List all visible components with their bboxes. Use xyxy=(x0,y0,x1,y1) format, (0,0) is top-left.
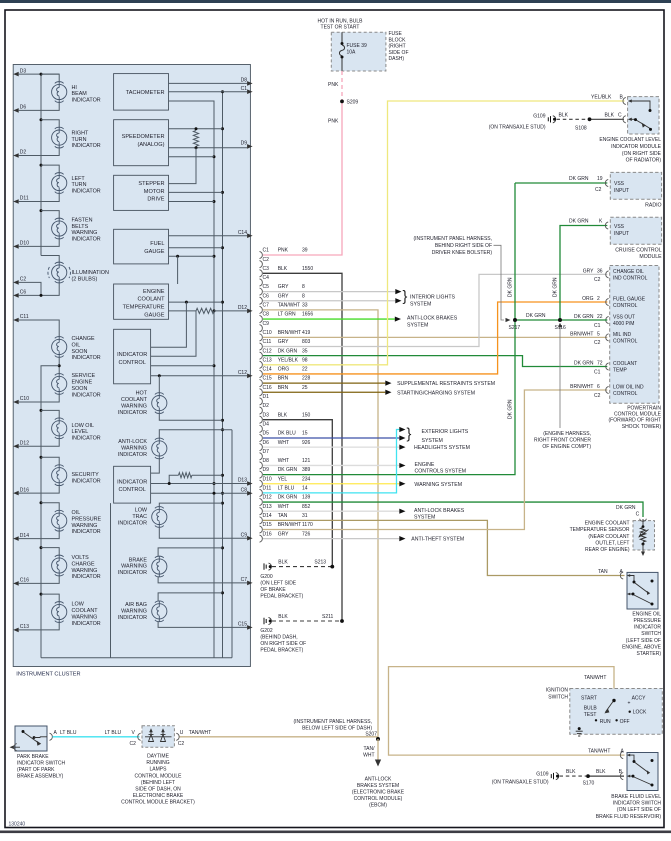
node warning system arrow xyxy=(399,481,405,486)
AIR BAG WARNING INDICATOR bulb xyxy=(152,604,167,619)
resistor speedometer (vertical) xyxy=(193,131,198,147)
svg-text:(BEHIND DASH,: (BEHIND DASH, xyxy=(260,634,297,640)
svg-text:RUN: RUN xyxy=(600,719,611,725)
svg-text:C10: C10 xyxy=(20,396,29,402)
svg-text:8: 8 xyxy=(302,293,305,299)
svg-text:BLK: BLK xyxy=(566,769,576,775)
svg-text:TAN: TAN xyxy=(278,513,288,519)
cluster pin C1 (right edge) xyxy=(247,89,253,94)
wire D3 BLK 150 to S213 xyxy=(263,420,332,567)
svg-text:COOLANT: COOLANT xyxy=(613,361,637,367)
svg-text:WARNING: WARNING xyxy=(72,614,98,620)
cluster pin D14 (left edge) xyxy=(13,536,19,541)
wire illumination bottom to C6/C2 xyxy=(19,283,60,295)
FUEL GAUGE box xyxy=(114,229,169,264)
svg-text:DRIVER KNEE BOLSTER): DRIVER KNEE BOLSTER) xyxy=(432,250,493,256)
cluster pin C10 (left edge) xyxy=(13,400,19,405)
svg-text:C15: C15 xyxy=(263,376,272,382)
svg-text:TAN/WHT: TAN/WHT xyxy=(588,748,610,754)
ILLUMINATION (2 BULBS) bulb xyxy=(52,265,67,280)
svg-text:WARNING: WARNING xyxy=(121,609,147,615)
svg-text:DK GRN: DK GRN xyxy=(553,277,559,297)
svg-text:OFF: OFF xyxy=(620,719,630,725)
svg-text:C8: C8 xyxy=(241,488,248,494)
svg-text:39: 39 xyxy=(302,248,308,254)
svg-text:(ENGINE HARNESS,: (ENGINE HARNESS, xyxy=(543,431,591,437)
wire indicator control 1 in 2 xyxy=(151,311,196,356)
fuse 39 10A xyxy=(341,32,343,42)
wire D9 DK GRN 389 to S217 rail xyxy=(263,183,515,475)
cluster pin D12 (left edge) xyxy=(13,444,19,449)
svg-text:C9: C9 xyxy=(241,532,248,538)
cluster pin C8 (right edge) xyxy=(247,491,253,496)
svg-text:GAUGE: GAUGE xyxy=(144,313,164,319)
svg-text:INDICATOR: INDICATOR xyxy=(117,479,147,485)
svg-text:D14: D14 xyxy=(263,513,272,519)
svg-text:BRN/WHT: BRN/WHT xyxy=(278,522,301,528)
svg-text:C5: C5 xyxy=(263,284,270,290)
svg-text:PRESSURE: PRESSURE xyxy=(72,516,102,522)
svg-text:RIGHT: RIGHT xyxy=(72,130,89,136)
RIGHT TURN INDICATOR bulb xyxy=(52,130,67,145)
wire bulb bottom exit xyxy=(19,239,60,246)
wire change oil bottom / service engine top xyxy=(58,357,60,373)
svg-text:GAUGE: GAUGE xyxy=(144,249,164,255)
svg-text:C10: C10 xyxy=(263,330,272,336)
svg-text:(RIGHT: (RIGHT xyxy=(389,44,406,50)
svg-text:FUSE: FUSE xyxy=(389,31,403,37)
BRAKE WARNING INDICATOR bulb xyxy=(152,559,167,574)
svg-text:BRAKE FLUID RESERVOIR): BRAKE FLUID RESERVOIR) xyxy=(596,814,662,820)
svg-text:ELECTRONIC BRAKE: ELECTRONIC BRAKE xyxy=(133,793,184,799)
wire stepper motor out 1 xyxy=(169,148,197,184)
pin A bracket xyxy=(50,733,53,740)
svg-text:DK GRN: DK GRN xyxy=(278,348,298,354)
svg-text:14: 14 xyxy=(302,486,308,492)
svg-text:INDICATOR: INDICATOR xyxy=(72,392,101,398)
svg-text:SYSTEM: SYSTEM xyxy=(422,438,443,444)
svg-text:DK GRN: DK GRN xyxy=(278,495,298,501)
svg-text:(ELECTRONIC BRAKE: (ELECTRONIC BRAKE xyxy=(352,790,405,796)
svg-text:C2: C2 xyxy=(594,277,601,283)
node headlights system arrow xyxy=(399,445,405,450)
cluster pin D3 (left edge) xyxy=(13,72,19,77)
svg-text:ANTI-LOCK BRAKES: ANTI-LOCK BRAKES xyxy=(414,508,465,514)
node harness pin C16 BRN 25 xyxy=(260,389,263,396)
svg-text:(NEAR COOLANT: (NEAR COOLANT xyxy=(588,534,629,540)
svg-text:DAYTIME: DAYTIME xyxy=(147,754,170,760)
svg-text:D13: D13 xyxy=(263,504,272,510)
svg-text:CRUISE CONTROL: CRUISE CONTROL xyxy=(615,248,662,254)
node harness pin D15 BRN/WHT 1170 xyxy=(260,526,263,533)
wire bulb top feed xyxy=(41,211,59,218)
svg-text:D8: D8 xyxy=(241,78,248,84)
node harness pin C8 LT GRN 1656 xyxy=(260,315,263,322)
wire DK GRN 19 to radio xyxy=(515,182,607,184)
wire DK GRN K to cruise xyxy=(560,226,607,321)
svg-text:LOW: LOW xyxy=(135,508,148,514)
node harness pin C15 BRN 228 xyxy=(260,380,263,387)
svg-text:ENGINE: ENGINE xyxy=(143,289,165,295)
svg-text:INDICATOR: INDICATOR xyxy=(117,352,147,358)
svg-text:TAN/WHT: TAN/WHT xyxy=(278,303,300,309)
wire low trac bulb bottom to C9 xyxy=(159,527,247,538)
svg-text:S207: S207 xyxy=(365,731,377,737)
wire C6 GRY 8 xyxy=(263,300,395,302)
wire bulb top feed lower xyxy=(41,594,59,601)
svg-text:SOON: SOON xyxy=(72,349,88,355)
svg-text:SECURITY: SECURITY xyxy=(72,472,100,478)
wire BLK dashed to G109 lower xyxy=(560,775,587,777)
park brake indicator switch box xyxy=(15,726,47,751)
svg-text:LOW OIL IND: LOW OIL IND xyxy=(613,384,644,390)
node harness pin D13 WHT 852 xyxy=(260,508,263,515)
svg-text:234: 234 xyxy=(302,476,311,482)
svg-text:INDICATOR: INDICATOR xyxy=(118,410,147,416)
brake fluid switch internals xyxy=(627,754,630,757)
svg-text:TAN/WHT: TAN/WHT xyxy=(584,675,606,681)
node engine controls system arrow xyxy=(399,463,405,468)
node exterior lights system arrows xyxy=(399,427,405,432)
svg-text:LT BLU: LT BLU xyxy=(278,486,295,492)
cluster pin C12 (right edge) xyxy=(247,373,253,378)
wire bulb bottom exit lower xyxy=(19,531,60,538)
svg-text:36: 36 xyxy=(597,268,603,274)
svg-text:INPUT: INPUT xyxy=(614,188,629,194)
node harness pin D16 GRY 726 xyxy=(260,535,263,542)
svg-text:(BEHIND LEFT: (BEHIND LEFT xyxy=(141,780,175,786)
cluster pin D12 (right edge) xyxy=(247,309,253,314)
svg-text:C6: C6 xyxy=(20,290,27,296)
svg-text:FUSE 39: FUSE 39 xyxy=(347,43,368,49)
PCM pin CHANGE OIL IND CONTROL xyxy=(606,271,609,278)
svg-text:TAN: TAN xyxy=(598,569,608,575)
svg-text:(LEFT SIDE OF: (LEFT SIDE OF xyxy=(626,638,661,644)
svg-text:VSS: VSS xyxy=(614,224,625,230)
svg-text:OIL: OIL xyxy=(72,510,81,516)
svg-text:S108: S108 xyxy=(575,126,587,132)
DRL output bracket U C2 xyxy=(176,733,179,740)
wire D13 WHT 852 xyxy=(263,510,399,512)
bottom page bar xyxy=(0,831,671,834)
svg-text:C: C xyxy=(618,112,622,118)
svg-text:BLK: BLK xyxy=(278,614,288,620)
node harness pin D6 WHT 926 xyxy=(260,444,263,451)
svg-text:D1: D1 xyxy=(263,394,270,400)
node harness pin D12 DK GRN 139 xyxy=(260,498,263,505)
svg-text:C1: C1 xyxy=(594,323,601,329)
wire bulb bottom exit lower xyxy=(19,486,60,493)
svg-text:SPEEDOMETER: SPEEDOMETER xyxy=(122,134,165,140)
node harness pin C4 xyxy=(260,279,263,286)
wire bulb top feed xyxy=(41,74,59,81)
svg-text:(INSTRUMENT PANEL HARNESS,: (INSTRUMENT PANEL HARNESS, xyxy=(413,236,492,242)
wire low trac bulb top xyxy=(159,503,222,506)
svg-text:TACHOMETER: TACHOMETER xyxy=(126,90,165,96)
svg-text:D9: D9 xyxy=(263,467,270,473)
svg-text:LT GRN: LT GRN xyxy=(278,312,296,318)
svg-text:DK GRN: DK GRN xyxy=(508,399,514,419)
svg-text:C: C xyxy=(636,512,640,518)
svg-text:MODULE: MODULE xyxy=(639,254,662,260)
wire air bag bulb top xyxy=(158,593,222,601)
svg-text:REAR OF ENGINE): REAR OF ENGINE) xyxy=(585,547,630,553)
node supplemental restraints system arrow xyxy=(385,380,391,385)
svg-text:INDICATOR: INDICATOR xyxy=(118,615,147,621)
svg-text:DK GRN: DK GRN xyxy=(616,505,636,511)
wire C7 TAN/WHT 33 to S207 xyxy=(263,310,378,740)
DRL diodes xyxy=(145,736,172,738)
SPEEDOMETER box xyxy=(114,120,169,166)
wire brake warning bulb top xyxy=(158,548,222,556)
svg-text:C12: C12 xyxy=(263,348,272,354)
svg-text:C13: C13 xyxy=(20,624,29,630)
svg-text:DK GRN: DK GRN xyxy=(278,467,298,473)
svg-text:C16: C16 xyxy=(263,385,272,391)
node harness pin C12 DK GRN 35 xyxy=(260,352,263,359)
svg-text:WHT: WHT xyxy=(278,504,289,510)
svg-text:TAN/WHT: TAN/WHT xyxy=(189,730,211,736)
wire D8 WHT 121 xyxy=(263,464,399,466)
PCM pin FUEL GAUGE CONTROL xyxy=(606,298,609,305)
svg-text:WARNING: WARNING xyxy=(72,568,98,574)
wire bulb top feed lower xyxy=(41,548,59,555)
svg-text:CONTROL: CONTROL xyxy=(613,339,638,345)
svg-text:D6: D6 xyxy=(263,440,270,446)
svg-text:IGNITION: IGNITION xyxy=(546,688,569,694)
top page bar xyxy=(0,0,671,3)
svg-text:121: 121 xyxy=(302,458,311,464)
svg-text:TURN: TURN xyxy=(72,182,87,188)
svg-text:150: 150 xyxy=(302,412,311,418)
svg-text:(ANALOG): (ANALOG) xyxy=(137,142,164,148)
wire tachometer out 2 to C1 xyxy=(169,91,248,93)
node harness pin C14 ORG 22 xyxy=(260,370,263,377)
svg-text:GRY: GRY xyxy=(278,531,289,537)
ENGINE COOLANT TEMPERATURE GAUGE box xyxy=(114,284,169,319)
svg-text:BEAM: BEAM xyxy=(72,91,88,97)
svg-text:C2: C2 xyxy=(20,277,27,283)
svg-text:33: 33 xyxy=(302,303,308,309)
svg-text:FUEL: FUEL xyxy=(150,241,164,247)
cluster pin C9 (right edge) xyxy=(247,536,253,541)
node interior lights system arrows xyxy=(395,289,401,294)
svg-text:WARNING: WARNING xyxy=(72,230,98,236)
wire tachometer out 1 to D8 xyxy=(169,82,248,84)
svg-text:C11: C11 xyxy=(263,339,272,345)
daytime running lamps control module box xyxy=(142,726,174,748)
svg-text:C8: C8 xyxy=(263,312,270,318)
cluster pin C13 (left edge) xyxy=(13,628,19,633)
svg-text:MIL IND: MIL IND xyxy=(613,332,632,338)
svg-text:D3: D3 xyxy=(263,412,270,418)
svg-text:C7: C7 xyxy=(263,303,270,309)
svg-text:ENGINE: ENGINE xyxy=(415,462,435,468)
wire speedometer out 1 xyxy=(169,128,223,130)
svg-text:D14: D14 xyxy=(20,533,29,539)
svg-text:PNK: PNK xyxy=(278,248,289,254)
svg-text:DK GRN: DK GRN xyxy=(508,277,514,297)
svg-text:CONTROL MODULE BRACKET): CONTROL MODULE BRACKET) xyxy=(121,800,195,806)
svg-text:COOLANT: COOLANT xyxy=(137,297,165,303)
wire indicator control 2 to D13 xyxy=(151,483,247,485)
svg-text:ANTI-THEFT SYSTEM: ANTI-THEFT SYSTEM xyxy=(411,537,464,543)
cluster pin D6 (left edge) xyxy=(13,108,19,113)
svg-text:C7: C7 xyxy=(241,577,248,583)
wire indicator control 2 to bottom bus xyxy=(110,503,112,658)
svg-text:+: + xyxy=(628,700,631,706)
wire C10 BRN/WHT 419 to PCM MIL xyxy=(263,336,607,338)
svg-text:726: 726 xyxy=(302,531,311,537)
svg-text:ENGINE OIL: ENGINE OIL xyxy=(632,611,661,617)
wire stepper motor out 2 xyxy=(169,191,223,193)
wire BLK dashed to G109 xyxy=(557,118,588,120)
svg-text:1550: 1550 xyxy=(302,266,313,272)
splice S213 and ground G200 xyxy=(272,566,331,568)
node harness pin D3 BLK 150 xyxy=(260,416,263,423)
wire D15 BRN/WHT 1170 to PCM low oil xyxy=(263,390,607,530)
svg-text:D11: D11 xyxy=(20,196,29,202)
engine coolant temperature sensor box xyxy=(633,521,655,550)
wire D14 TAN 31 to oil pressure switch xyxy=(263,520,625,575)
cluster pin C16 (left edge) xyxy=(13,581,19,586)
svg-text:130240: 130240 xyxy=(9,822,26,828)
svg-text:WARNING: WARNING xyxy=(121,403,147,409)
svg-text:LT BLU: LT BLU xyxy=(105,730,122,736)
svg-text:ENGINE COOLANT: ENGINE COOLANT xyxy=(585,521,630,527)
wire indicator control 1 in 1 xyxy=(151,302,187,347)
svg-text:INTERIOR LIGHTS: INTERIOR LIGHTS xyxy=(410,295,456,301)
engine oil pressure indicator switch box xyxy=(627,572,658,609)
svg-text:D4: D4 xyxy=(263,421,270,427)
splice S108 xyxy=(588,117,592,121)
svg-text:ON RIGHT SIDE OF: ON RIGHT SIDE OF xyxy=(260,641,306,647)
svg-text:WHT: WHT xyxy=(363,753,374,759)
svg-text:G109: G109 xyxy=(533,114,545,120)
svg-text:C11: C11 xyxy=(20,314,29,320)
cruise control module box xyxy=(610,217,661,244)
cluster pin C2 (left edge) xyxy=(13,280,19,285)
svg-text:AIR BAG: AIR BAG xyxy=(125,602,147,608)
indicator control box 2 xyxy=(114,466,151,503)
LOW TRAC INDICATOR bulb xyxy=(152,509,167,524)
svg-text:CHARGE: CHARGE xyxy=(72,561,95,567)
OIL PRESSURE WARNING INDICATOR bulb xyxy=(52,513,67,528)
svg-text:389: 389 xyxy=(302,467,311,473)
svg-text:PARK BRAKE: PARK BRAKE xyxy=(17,754,49,760)
wire C16 BRN 25 xyxy=(263,391,385,393)
wire C5 GRY 8 xyxy=(263,291,395,293)
wire D16 GRY 726 xyxy=(263,538,399,540)
svg-text:SWITCH: SWITCH xyxy=(548,694,568,700)
PCM pin COOLANT TEMP xyxy=(606,363,609,370)
svg-text:D5: D5 xyxy=(263,431,270,437)
wire indicator control 2 to C8 xyxy=(151,492,247,494)
svg-text:BELOW LEFT SIDE OF DASH): BELOW LEFT SIDE OF DASH) xyxy=(302,726,372,732)
cluster pin D11 (left edge) xyxy=(13,199,19,204)
TACHOMETER box xyxy=(114,74,169,111)
wire TAN/WHT DRL to S207 xyxy=(180,736,379,738)
svg-text:852: 852 xyxy=(302,504,311,510)
svg-text:GRY: GRY xyxy=(278,284,289,290)
svg-text:(2 BULBS): (2 BULBS) xyxy=(72,276,98,282)
svg-text:INDICATOR MODULE: INDICATOR MODULE xyxy=(611,144,661,150)
wire bulb bottom exit lower xyxy=(19,576,60,583)
svg-text:PEDAL BRACKET): PEDAL BRACKET) xyxy=(260,593,303,599)
svg-text:22: 22 xyxy=(597,314,603,320)
svg-text:D12: D12 xyxy=(238,305,247,311)
wire fuel gauge out 2 xyxy=(169,247,223,249)
svg-text:31: 31 xyxy=(302,513,308,519)
svg-text:INDICATOR: INDICATOR xyxy=(72,143,101,149)
svg-text:CONTROL: CONTROL xyxy=(119,360,146,366)
svg-text:YEL/BLK: YEL/BLK xyxy=(591,95,612,101)
svg-text:EXTERIOR LIGHTS: EXTERIOR LIGHTS xyxy=(422,429,469,435)
svg-text:139: 139 xyxy=(302,495,311,501)
rail 3 xyxy=(231,430,233,658)
svg-text:INDICATOR: INDICATOR xyxy=(72,98,101,104)
node harness pin D7 xyxy=(260,453,263,460)
svg-text:2: 2 xyxy=(597,296,600,302)
svg-text:15: 15 xyxy=(302,431,308,437)
svg-text:SYSTEM: SYSTEM xyxy=(410,301,431,307)
wire speedometer out 3 xyxy=(169,156,215,158)
wire anti-lock bulb top xyxy=(159,430,232,438)
svg-text:ANTI-LOCK: ANTI-LOCK xyxy=(118,439,147,445)
svg-text:BRN/WHT: BRN/WHT xyxy=(570,384,593,390)
svg-text:C2: C2 xyxy=(178,741,185,747)
wire bulb bottom exit xyxy=(19,194,60,202)
cluster pin D16 (left edge) xyxy=(13,491,19,496)
cluster pin C6 (left edge) xyxy=(13,293,19,298)
svg-text:419: 419 xyxy=(302,330,311,336)
HOT COOLANT WARNING INDICATOR bulb xyxy=(152,396,167,411)
svg-text:(ON LEFT SIDE OF: (ON LEFT SIDE OF xyxy=(617,807,661,813)
ground G109 (on transaxle stud) xyxy=(550,116,552,122)
svg-text:98: 98 xyxy=(302,357,308,363)
svg-text:CONTROL: CONTROL xyxy=(613,303,638,309)
svg-text:S217: S217 xyxy=(509,325,521,331)
wire C8 LT GRN 1656 xyxy=(263,318,395,320)
wire fuel gauge out 3 xyxy=(169,255,215,257)
LOW OIL LEVEL INDICATOR bulb xyxy=(52,421,67,436)
wire stepper motor out 3 xyxy=(169,201,215,203)
instrument cluster box xyxy=(13,65,250,667)
svg-text:VSS OUT: VSS OUT xyxy=(613,314,635,320)
wire BLK module C to S108 xyxy=(591,118,625,120)
wire bulb top feed lower xyxy=(41,410,59,417)
wire hot coolant bulb bottom xyxy=(159,414,222,421)
PCM pin LOW OIL IND CONTROL xyxy=(606,386,609,393)
node harness pin D10 YEL 234 xyxy=(260,480,263,487)
svg-text:DRIVE: DRIVE xyxy=(147,197,164,203)
wire fuel gauge out 1 to C14 xyxy=(169,235,248,237)
wire service engine bottom to C10 xyxy=(19,394,60,402)
svg-text:LOW: LOW xyxy=(72,602,85,608)
svg-text:C2: C2 xyxy=(130,741,137,747)
oil switch internals xyxy=(627,574,630,577)
svg-text:19: 19 xyxy=(597,176,603,182)
svg-text:D10: D10 xyxy=(20,241,29,247)
svg-text:INDICATOR: INDICATOR xyxy=(118,521,147,527)
svg-text:BLK: BLK xyxy=(278,266,288,272)
svg-text:ENGINE COOLANT LEVEL: ENGINE COOLANT LEVEL xyxy=(599,137,661,143)
svg-text:ENGINE, ABOVE: ENGINE, ABOVE xyxy=(622,644,662,650)
svg-text:VSS: VSS xyxy=(614,181,625,187)
node harness pin D11 LT BLU 14 xyxy=(260,489,263,496)
cluster pin C11 (left edge) xyxy=(13,318,19,323)
park brake ground exit xyxy=(10,745,15,749)
